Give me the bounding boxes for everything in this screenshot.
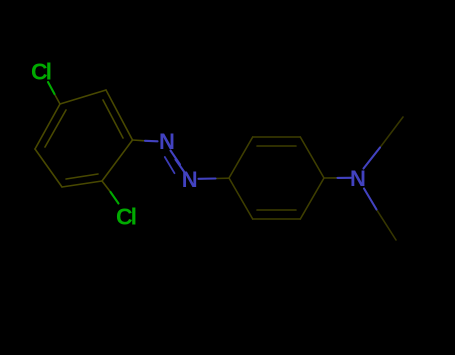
wire C6-C5 (60, 90, 106, 104)
upper ethyl carbon part (380, 117, 403, 148)
double bond inner line C4=C5 (45, 110, 66, 147)
double bond inner line top (257, 145, 296, 147)
wire BR-BL (253, 218, 301, 220)
wire TL-TR (253, 136, 301, 138)
svg-text:Cl: Cl (31, 58, 51, 84)
svg-text:N: N (350, 166, 366, 191)
wire BL-L (229, 178, 253, 219)
wire C3-C2 (62, 181, 102, 187)
azo N1=N2 main line (171, 151, 181, 165)
lower ethyl nitrogen half (364, 189, 377, 210)
wire C4-C3 (35, 149, 62, 187)
wire C2-C1 (102, 140, 133, 181)
lower ethyl carbon part (377, 210, 397, 241)
bond C1-N1 carbon half (133, 139, 146, 142)
azo N1=N2 main line second stagger stroke (176, 160, 186, 174)
wire R-BR (300, 178, 324, 219)
bond N2-C1' nitrogen half (199, 177, 216, 179)
wire TR-R (300, 137, 324, 178)
wire C1-C6 (106, 90, 133, 140)
bond C2-Cl carbon half (102, 181, 111, 192)
double bond inner line C6=C1 (103, 100, 123, 138)
bond C1-N1 nitrogen half (145, 140, 158, 143)
double bond inner line bottom (257, 209, 296, 211)
bond C5-Cl chlorine half (48, 82, 55, 94)
bond N2-C1' carbon half (216, 177, 230, 179)
bond C4'-N3 nitrogen half (338, 177, 352, 179)
bond C4'-N3 carbon half (324, 177, 338, 179)
bond C2-Cl chlorine half (111, 192, 119, 204)
wire C5-C4 (35, 104, 60, 149)
double bond inner line C2=C3 (66, 174, 98, 179)
upper ethyl nitrogen half (364, 148, 381, 169)
svg-text:N: N (182, 167, 198, 192)
bond C5-Cl carbon half (55, 94, 61, 104)
svg-text:Cl: Cl (116, 204, 136, 230)
wire L-TL (229, 137, 253, 178)
azo N1=N2 second line (165, 157, 175, 173)
svg-text:N: N (159, 129, 175, 154)
